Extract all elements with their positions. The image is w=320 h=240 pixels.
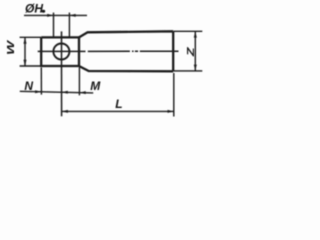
hole circle — [53, 44, 69, 60]
dimension N arrowhead at hole centerline — [62, 91, 68, 94]
dimension L: arrowheads — [62, 110, 174, 113]
svg-text:ØH: ØH — [25, 1, 43, 15]
dimension W: arrowheads — [24, 37, 27, 66]
dimension N and M: shared dimension line — [20, 91, 93, 93]
part outline: flange rectangle — [41, 37, 79, 66]
dimension N: left flange-edge extension line — [40, 68, 42, 95]
svg-text:L: L — [115, 97, 122, 111]
part outline: cone chamfer and cylinder body — [79, 31, 173, 71]
dimension N arrowhead at flange left edge — [35, 90, 41, 93]
svg-text:N: N — [24, 79, 33, 93]
dimension ØH: extension lines — [54, 13, 70, 37]
dimension W: extension lines — [20, 37, 41, 66]
dimension M arrowhead at flange right edge — [79, 91, 85, 94]
svg-text:M: M — [90, 79, 101, 93]
svg-text:W: W — [5, 40, 16, 55]
dimension W: dimension line — [24, 38, 26, 66]
dimension ØH: dimension line — [24, 14, 87, 16]
dimension Z: arrowheads — [194, 31, 197, 71]
dimension ØH: arrowheads — [47, 14, 75, 17]
dimension Z: extension lines — [174, 31, 203, 71]
hole vertical centerline — [61, 31, 63, 116]
dimension L: right end extension line — [173, 73, 175, 117]
horizontal centerline (dash-dot) — [38, 50, 179, 52]
dimension L: dimension line — [62, 110, 174, 112]
dimension Z: dimension line — [194, 32, 196, 71]
svg-text:Z: Z — [185, 46, 197, 57]
stray dot after ØH — [42, 10, 46, 13]
dimension M: flange right edge extension line — [78, 68, 80, 96]
